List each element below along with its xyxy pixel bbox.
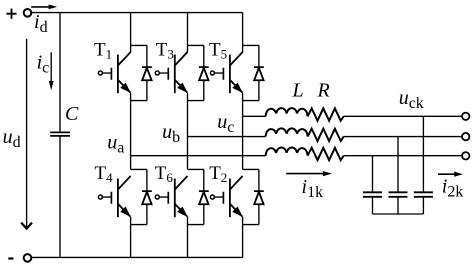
voltage arrow u_d	[21, 39, 32, 229]
wire bottom rail	[31, 256, 243, 258]
IGBT T3	[155, 45, 208, 100]
resistor R phase c	[308, 108, 344, 120]
svg-text:R: R	[317, 79, 330, 101]
filter capacitor branch phase b	[397, 137, 399, 214]
current arrow i_c	[49, 52, 54, 90]
wire phase c from leg3	[243, 115, 266, 117]
wire phase b from leg2	[188, 136, 266, 138]
plus sign of DC source	[6, 9, 16, 19]
minus sign of DC source	[8, 257, 13, 259]
terminal - circle	[24, 254, 32, 262]
filter capacitor plates phase a	[363, 192, 382, 197]
current arrow i_2k	[438, 172, 463, 177]
inductor L phase b	[266, 128, 308, 136]
svg-text:C: C	[65, 103, 79, 125]
terminal + circle	[24, 9, 32, 17]
inductor L phase c	[266, 108, 308, 116]
filter capacitor branch phase c	[422, 116, 424, 214]
svg-text:L: L	[292, 80, 304, 102]
capacitor C branch wire bottom	[59, 136, 61, 257]
output terminal circle phase b	[462, 133, 469, 140]
filter capacitor plates phase b	[389, 192, 408, 197]
capacitor C branch wire top	[59, 13, 61, 133]
inductor L phase a	[266, 147, 308, 155]
wire phase b to terminal	[344, 136, 462, 138]
filter capacitor plates phase c	[414, 192, 433, 197]
resistor R phase b	[308, 129, 344, 141]
current arrow i_d	[31, 5, 57, 10]
IGBT T2	[210, 169, 263, 224]
output terminal circle phase a	[462, 152, 469, 159]
leg 2 wire segments	[187, 13, 189, 258]
resistor R phase a	[308, 148, 344, 160]
wire phase a from leg1	[131, 155, 266, 157]
current arrow i_1k	[286, 171, 332, 176]
IGBT T6	[155, 169, 208, 224]
wire phase a to terminal	[344, 155, 462, 157]
IGBT T5	[210, 45, 263, 100]
wire capacitor star rail	[373, 213, 424, 215]
IGBT T4	[98, 169, 151, 224]
wire phase c to terminal	[344, 115, 462, 117]
capacitor C plates	[50, 132, 70, 136]
leg 3 wire segments	[242, 13, 244, 258]
wire top rail	[31, 12, 243, 14]
output terminal circle phase c	[462, 113, 469, 120]
filter capacitor branch phase a	[372, 156, 374, 214]
leg 1 wire segments	[130, 13, 132, 258]
IGBT T1	[98, 45, 151, 100]
